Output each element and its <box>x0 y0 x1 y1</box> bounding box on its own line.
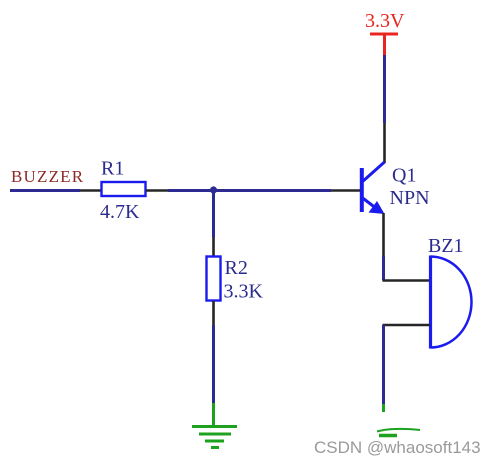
R2 pin 1 <box>212 237 215 256</box>
Q1 base pin <box>331 189 360 192</box>
svg-text:BZ1: BZ1 <box>428 235 464 257</box>
wire junction to R2 <box>212 190 215 237</box>
Q1 emitter pin <box>382 213 385 256</box>
BZ1 pin 2 <box>383 324 431 327</box>
ground symbol <box>192 403 237 448</box>
junction node <box>210 186 217 193</box>
wire left BUZZER net <box>10 189 80 192</box>
watermark squiggle <box>377 429 420 436</box>
R2 pin 2 <box>212 301 215 325</box>
resistor R1 <box>102 182 146 196</box>
wire BZ1 to ground net <box>382 325 385 404</box>
buzzer BZ1 <box>429 256 432 349</box>
Q1 collector pin <box>383 123 386 163</box>
svg-text:3.3K: 3.3K <box>224 281 264 303</box>
R1 pin 2 <box>146 189 168 192</box>
power bar symbol 3.3V <box>370 34 398 55</box>
svg-text:BUZZER: BUZZER <box>11 167 84 186</box>
wire 3.3V to collector <box>383 55 386 123</box>
BZ1 pin 1 <box>383 279 431 282</box>
R1 pin 1 <box>80 189 101 192</box>
ground tip green <box>382 404 385 412</box>
svg-text:3.3V: 3.3V <box>365 10 405 32</box>
svg-text:NPN: NPN <box>390 187 430 209</box>
svg-text:Q1: Q1 <box>392 165 416 187</box>
svg-text:R1: R1 <box>101 158 124 180</box>
svg-text:R2: R2 <box>225 257 248 279</box>
wire emitter to BZ1 <box>382 256 385 281</box>
svg-text:4.7K: 4.7K <box>100 201 140 223</box>
wire junction to base <box>168 189 331 192</box>
resistor R2 <box>207 257 221 301</box>
svg-text:CSDN @whaosoft143: CSDN @whaosoft143 <box>314 438 481 457</box>
wire R2 to ground <box>212 325 215 403</box>
transistor Q1 <box>362 162 385 214</box>
